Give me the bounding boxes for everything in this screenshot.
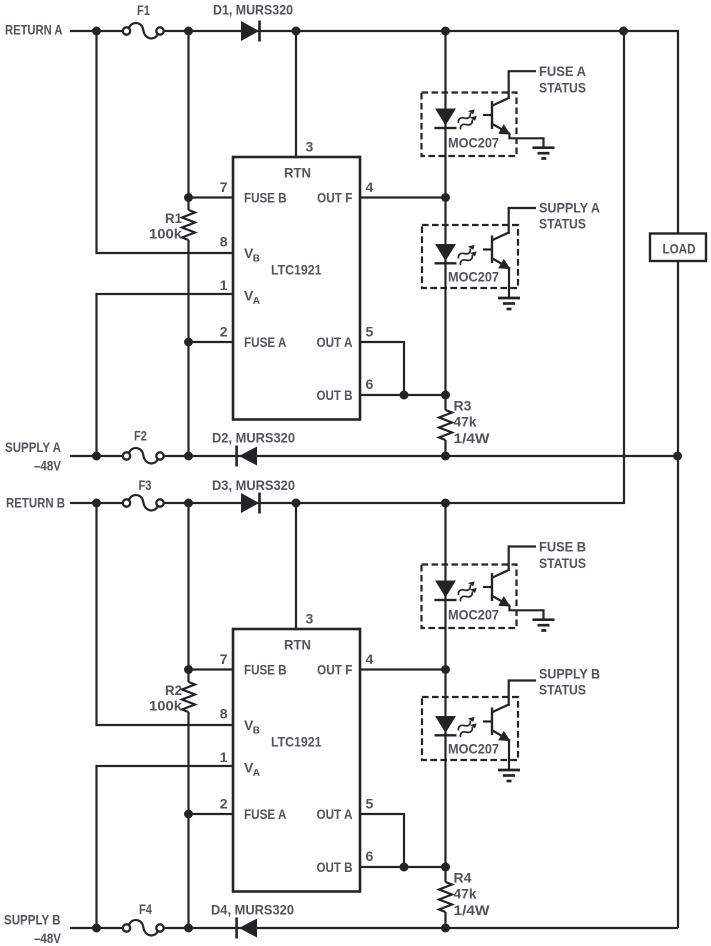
svg-text:3: 3 — [306, 139, 314, 155]
svg-text:2: 2 — [220, 324, 228, 340]
svg-text:–48V: –48V — [34, 930, 62, 946]
svg-text:1/4W: 1/4W — [454, 902, 491, 918]
svg-text:47k: 47k — [454, 886, 477, 902]
svg-text:RTN: RTN — [284, 165, 311, 181]
svg-text:A: A — [253, 296, 260, 307]
svg-text:FUSE A: FUSE A — [244, 334, 287, 350]
svg-text:D1, MURS320: D1, MURS320 — [213, 2, 293, 18]
svg-text:7: 7 — [220, 179, 228, 195]
svg-text:100k: 100k — [149, 698, 182, 714]
svg-text:B: B — [253, 254, 260, 265]
svg-text:LOAD: LOAD — [663, 241, 696, 257]
svg-text:STATUS: STATUS — [539, 215, 586, 231]
svg-text:FUSE A: FUSE A — [539, 63, 586, 79]
svg-text:47k: 47k — [454, 414, 477, 430]
svg-text:R1: R1 — [165, 210, 182, 226]
svg-text:STATUS: STATUS — [539, 682, 586, 698]
svg-text:LTC1921: LTC1921 — [271, 261, 322, 277]
svg-text:STATUS: STATUS — [539, 80, 586, 96]
svg-text:R2: R2 — [165, 682, 182, 698]
svg-text:100k: 100k — [149, 226, 182, 242]
svg-text:5: 5 — [366, 324, 374, 340]
svg-text:OUT A: OUT A — [317, 334, 353, 350]
svg-text:6: 6 — [366, 376, 374, 392]
svg-text:FUSE B: FUSE B — [539, 538, 586, 554]
svg-text:4: 4 — [366, 179, 374, 195]
svg-text:D2, MURS320: D2, MURS320 — [212, 430, 295, 446]
svg-text:SUPPLY B: SUPPLY B — [539, 666, 600, 682]
svg-text:FUSE B: FUSE B — [244, 189, 287, 205]
svg-text:MOC207: MOC207 — [448, 134, 499, 150]
svg-text:–48V: –48V — [34, 457, 62, 473]
svg-text:F3: F3 — [139, 477, 152, 493]
svg-text:R3: R3 — [454, 397, 472, 413]
svg-text:1/4W: 1/4W — [454, 430, 491, 446]
svg-text:STATUS: STATUS — [539, 555, 586, 571]
svg-text:8: 8 — [220, 234, 228, 250]
svg-text:D3, MURS320: D3, MURS320 — [212, 477, 295, 493]
svg-text:F1: F1 — [137, 2, 150, 18]
svg-text:OUT F: OUT F — [317, 189, 353, 205]
svg-text:RETURN A: RETURN A — [5, 22, 63, 38]
svg-text:F4: F4 — [139, 901, 152, 917]
svg-text:SUPPLY A: SUPPLY A — [539, 199, 600, 215]
svg-text:OUT B: OUT B — [317, 387, 353, 403]
svg-text:1: 1 — [220, 277, 228, 293]
svg-text:SUPPLY B: SUPPLY B — [4, 912, 61, 928]
svg-text:SUPPLY A: SUPPLY A — [5, 439, 61, 455]
svg-text:RETURN B: RETURN B — [6, 495, 65, 511]
svg-text:D4, MURS320: D4, MURS320 — [211, 902, 294, 918]
svg-text:MOC207: MOC207 — [448, 269, 499, 285]
svg-text:R4: R4 — [454, 869, 472, 885]
svg-text:F2: F2 — [134, 428, 147, 444]
